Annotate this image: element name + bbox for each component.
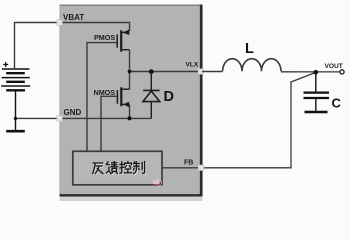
pin GND [57, 116, 63, 122]
wire PMOS gate to feedback control [87, 43, 117, 152]
svg-text:VBAT: VBAT [63, 13, 84, 22]
pin VBAT [57, 20, 63, 26]
capacitor C [304, 72, 330, 111]
terminal VOUT [340, 70, 344, 74]
svg-text:NMOS: NMOS [94, 88, 116, 97]
pin VLX [198, 69, 204, 75]
wire VBAT (battery + to PMOS source) [15, 23, 130, 70]
cursor artifact (red arrow) [153, 179, 162, 186]
svg-text:FB: FB [184, 159, 193, 166]
feedback control block [73, 151, 162, 185]
label 反馈控制 (feedback control) [94, 162, 146, 174]
node (VOUT / cap / FB junction) [314, 70, 319, 75]
svg-text:PMOS: PMOS [94, 33, 115, 42]
wire GND rail [16, 117, 152, 119]
node (diode cathode tap) [149, 69, 154, 74]
wire NMOS gate to feedback control [101, 96, 117, 151]
svg-text:VLX: VLX [186, 62, 199, 69]
wire VLX to inductor [202, 71, 223, 73]
wire FB (feedback sense from VOUT node) [162, 72, 315, 167]
wire VLX rail [130, 71, 202, 73]
node (battery-GND junction) [14, 117, 17, 120]
node (NMOS source / GND) [128, 116, 132, 120]
svg-text:VOUT: VOUT [325, 63, 343, 70]
ground (capacitor) [305, 111, 328, 114]
ground (battery) [6, 90, 25, 131]
svg-text:L: L [245, 41, 254, 57]
svg-text:GND: GND [64, 108, 82, 117]
transistor Q1 PMOS [117, 30, 129, 72]
pin FB [198, 165, 204, 171]
wire inductor to VOUT [281, 71, 340, 73]
inductor L [223, 59, 281, 72]
transistor Q2 NMOS [117, 72, 129, 119]
diode D [143, 72, 160, 119]
svg-text:D: D [164, 89, 174, 105]
IC block U1 (buck converter IC body) [60, 5, 203, 202]
svg-text:C: C [332, 96, 342, 111]
battery BT1 [1, 62, 30, 90]
node (PMOS drain / NMOS drain) [128, 70, 132, 74]
